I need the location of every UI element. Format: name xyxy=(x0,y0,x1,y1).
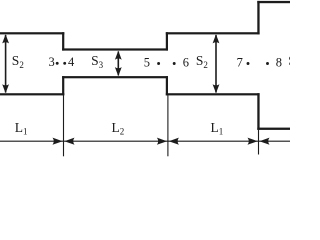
arrowhead right L1 right end (points right) xyxy=(248,138,258,145)
arrowhead S2 right up xyxy=(213,34,220,43)
svg-text:4: 4 xyxy=(68,55,75,69)
wire top edge far-right wide section xyxy=(257,1,290,3)
svg-text:L2: L2 xyxy=(112,120,125,137)
wire step down far-right (bottom profile) xyxy=(257,93,259,130)
node port 5 dot xyxy=(157,62,160,65)
svg-text:8: 8 xyxy=(276,55,282,69)
svg-text:L1: L1 xyxy=(211,120,224,137)
arrowhead S3 up xyxy=(115,51,122,60)
wire step up right (top profile) xyxy=(166,32,168,50)
wire top edge left section xyxy=(0,32,64,34)
arrowhead right L1 left end (points left) xyxy=(169,138,179,145)
arrowhead S2 left down xyxy=(2,84,9,93)
extension line at x=168.5 xyxy=(167,95,169,156)
wire bottom edge right section xyxy=(166,93,260,95)
wire tall step top-right corner xyxy=(257,1,259,35)
node port 7 dot xyxy=(247,62,250,65)
svg-text:S2: S2 xyxy=(196,53,208,70)
svg-text:S: S xyxy=(288,53,290,68)
arrowhead L2 left end (points left) xyxy=(64,138,74,145)
svg-text:7: 7 xyxy=(237,55,243,69)
arrowhead L2 right end (points right) xyxy=(157,138,167,145)
node port 6 dot xyxy=(173,62,176,65)
arrow shaft S2 right xyxy=(215,35,217,93)
svg-text:S2: S2 xyxy=(12,53,24,70)
arrow shaft S3 xyxy=(117,52,119,76)
svg-text:L1: L1 xyxy=(15,120,28,137)
wire step up left (bottom profile) xyxy=(62,76,64,95)
arrow shaft S2 left xyxy=(5,35,7,93)
svg-text:6: 6 xyxy=(183,55,189,69)
arrowhead S2 right down xyxy=(213,84,220,93)
wire top edge right section xyxy=(166,32,260,34)
wire top edge middle narrow section xyxy=(62,48,168,50)
wire bottom edge middle section xyxy=(62,76,168,78)
arrowhead S2 left up xyxy=(2,34,9,43)
wire step down right (bottom profile) xyxy=(166,76,168,95)
svg-text:3: 3 xyxy=(49,55,55,69)
arrowhead L1 right end (points right) xyxy=(53,138,63,145)
svg-text:5: 5 xyxy=(144,55,150,69)
node port 4 dot xyxy=(63,62,66,65)
arrowhead S3 down xyxy=(115,67,122,76)
extension line at x=258.4 xyxy=(258,130,260,155)
node port 8 dot xyxy=(266,62,269,65)
svg-text:S3: S3 xyxy=(91,53,104,70)
dimension line L1 L2 L1 xyxy=(0,140,290,142)
node port 3 dot xyxy=(56,62,59,65)
wire bottom edge far-right wide section xyxy=(257,128,290,130)
extension line at x=63.5 xyxy=(63,95,65,156)
arrowhead far right segment left end (points left) xyxy=(259,138,269,145)
wire step down left (top profile) xyxy=(62,32,64,50)
wire bottom edge left section xyxy=(0,93,64,95)
